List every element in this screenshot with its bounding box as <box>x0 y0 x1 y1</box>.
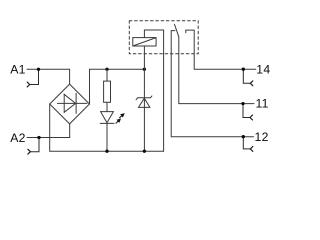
junction A1 <box>37 68 40 71</box>
junction A2 <box>37 136 40 139</box>
wire stub terminal 12 <box>243 136 253 138</box>
relay contact NO path to terminal 14 <box>186 30 244 69</box>
wire zener branch vertical <box>143 69 145 151</box>
svg-text:A2: A2 <box>10 131 26 145</box>
wire coil feed from top rail <box>143 46 145 69</box>
wire bridge right vertex to top rail <box>90 69 145 104</box>
relay contact NC path to terminal 12 <box>171 31 243 137</box>
resistor R1 <box>104 81 111 102</box>
svg-text:11: 11 <box>256 97 269 111</box>
suppressor diode cathode bar with zener ticks <box>136 96 152 100</box>
wire top rail to resistor <box>106 69 108 81</box>
junction resistor branch top <box>105 68 108 71</box>
junction zener top / coil feed <box>143 68 146 71</box>
LED emission arrows <box>117 113 125 123</box>
relay contact common wire to terminal 11 <box>179 37 243 104</box>
LED cathode bar <box>100 122 114 124</box>
clamp symbol A2 <box>30 138 39 152</box>
wire A2 to bridge bottom vertex <box>27 124 70 138</box>
suppressor diode triangle <box>139 98 150 107</box>
clamp symbol 12 <box>243 137 250 149</box>
wire A1 to bridge top vertex <box>27 69 70 84</box>
relay coil K1 box <box>133 38 156 46</box>
clamp symbol 14 <box>243 69 250 83</box>
clamp symbol 11 <box>243 104 250 118</box>
bridge inner diode axis <box>58 102 88 104</box>
wire stub terminal 11 <box>243 103 254 105</box>
wire stub terminal 14 <box>243 68 256 70</box>
svg-text:14: 14 <box>256 62 270 76</box>
clamp symbol A1 <box>30 69 39 84</box>
wire bridge left vertex to bottom rail <box>50 104 164 151</box>
wire resistor to LED <box>106 102 108 111</box>
svg-text:12: 12 <box>255 130 269 144</box>
bridge rectifier diamond <box>50 84 90 124</box>
svg-text:A1: A1 <box>10 63 26 77</box>
bridge inner diode cathode bar <box>75 93 77 113</box>
bridge inner diode triangle <box>64 94 75 112</box>
wire coil return over box to bottom rail <box>144 30 163 151</box>
relay coil diagonal <box>133 38 156 46</box>
junction zener bottom <box>143 150 146 153</box>
LED indicator triangle <box>101 112 114 123</box>
relay contact blade <box>175 24 179 36</box>
junction terminal 12 <box>242 135 245 138</box>
relay enclosure dashed box <box>129 21 198 54</box>
junction terminal 14 <box>242 68 245 71</box>
wire LED to bottom rail <box>106 123 108 151</box>
junction LED bottom <box>105 150 108 153</box>
junction terminal 11 <box>241 102 244 105</box>
